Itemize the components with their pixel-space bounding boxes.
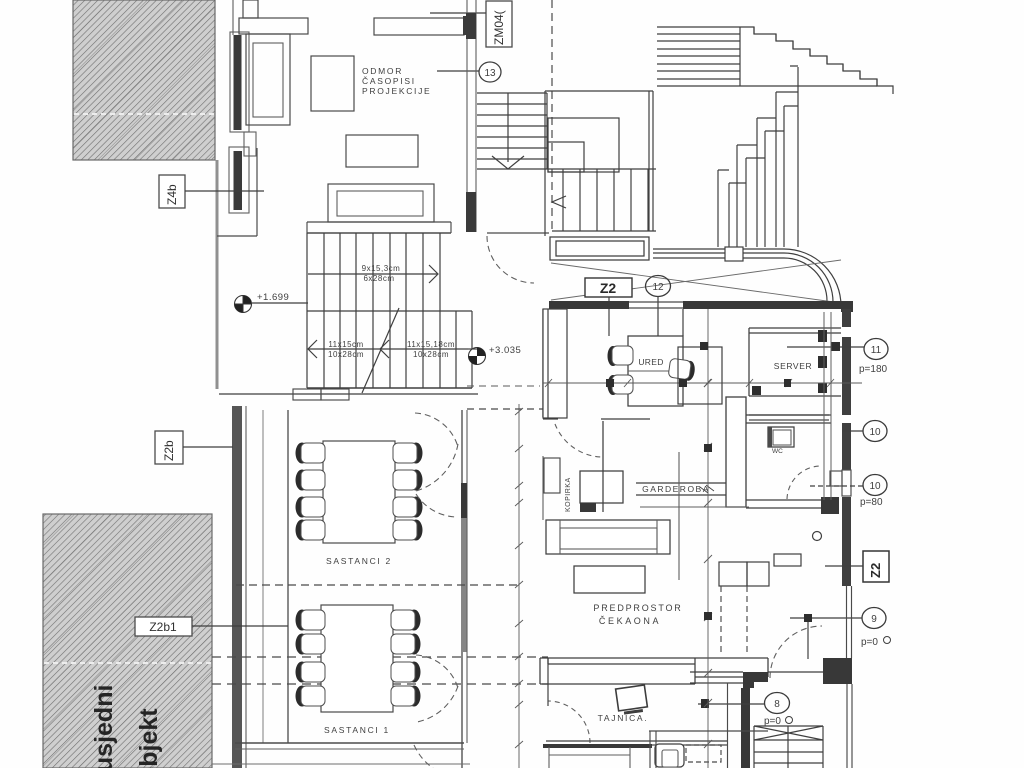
ured corridor west wall	[542, 309, 544, 417]
dashed wall continuation right of stairs	[467, 408, 543, 410]
room 9 door arc	[770, 626, 822, 678]
svg-text:p=80: p=80	[860, 497, 883, 508]
cabinets below stairs	[293, 389, 349, 400]
stairs bottom right	[754, 726, 823, 768]
room label ODMOR CASOPISI PROJEKCIJE	[362, 66, 431, 96]
meeting room west wall	[287, 410, 289, 743]
stair rail dark band	[741, 688, 750, 768]
svg-text:ČEKAONA: ČEKAONA	[599, 616, 661, 626]
meeting rooms bottom wall	[212, 743, 470, 764]
meeting rooms left outer wall band	[232, 406, 263, 768]
landing stair arrow	[492, 156, 524, 169]
circle 10 upper	[842, 421, 887, 442]
ramp square marker	[725, 247, 743, 261]
circle 10 lower	[810, 475, 887, 509]
ramp corridor	[550, 237, 649, 260]
svg-text:GARDEROBA: GARDEROBA	[642, 484, 710, 494]
svg-text:PREDPROSTOR: PREDPROSTOR	[593, 603, 682, 613]
landing lower stair	[547, 169, 656, 231]
stair dimension text 11x15,18cm 10x28cm	[407, 340, 455, 359]
label box ZM04	[430, 1, 512, 47]
svg-text:URED: URED	[638, 357, 663, 367]
wall below stairs	[219, 393, 478, 395]
circle 9	[790, 608, 891, 660]
partition east of ured	[682, 309, 684, 336]
dark pier right of wc	[821, 497, 839, 514]
svg-text:10x28cm: 10x28cm	[413, 350, 449, 359]
roof cascade staircase steps top	[718, 66, 798, 183]
svg-text:TAJNICA.: TAJNICA.	[598, 713, 649, 723]
label box Z2b	[155, 431, 233, 464]
wall cavity lines east side	[824, 312, 831, 500]
wc door arc	[787, 466, 821, 499]
stair break line	[362, 308, 399, 393]
stair top platform edge	[307, 222, 451, 233]
terrace step rects on landing	[548, 118, 619, 172]
label box Z4b	[159, 175, 264, 208]
neighbouring building hatched block bottom-left (susjedni objekt)	[43, 514, 212, 768]
tall pillar garderoba/wc	[726, 397, 746, 507]
neighbouring building hatched block top-left	[73, 0, 215, 160]
monitor tajnica	[616, 685, 648, 714]
dashed joint line in hatch	[44, 662, 211, 664]
low table odmor	[346, 135, 418, 167]
right wall window gaps	[841, 327, 852, 423]
circle 11	[787, 339, 888, 376]
level marker +1.699	[234, 292, 308, 313]
svg-text:6x28cm: 6x28cm	[363, 274, 394, 283]
roof cascade vertical lines	[718, 67, 798, 247]
circle 12	[646, 276, 671, 337]
room label PREDPROSTOR CEKAONA	[593, 603, 682, 626]
table cekaona	[574, 566, 645, 593]
top cabinet bar B	[374, 18, 464, 35]
chairs sastanci 1 right	[391, 610, 421, 631]
server racks	[752, 330, 827, 395]
svg-text:11x15,18cm: 11x15,18cm	[407, 340, 455, 349]
label box Z2 right	[825, 551, 889, 582]
svg-text:SASTANCI 1: SASTANCI 1	[324, 725, 390, 735]
double door arcs sastanci 1	[416, 655, 458, 722]
right outer wall hatched	[842, 309, 851, 586]
svg-text:9x15,3cm: 9x15,3cm	[362, 264, 401, 273]
leader to circle 13	[437, 70, 480, 72]
dim tick x708 upper	[700, 342, 708, 350]
window W1 in left wall	[230, 32, 249, 132]
chairs sastanci 1 left	[296, 610, 326, 631]
square table odmor	[311, 56, 354, 111]
ured desk return	[678, 347, 722, 404]
wall pier corridor	[543, 309, 567, 418]
stair walk line upper with arrow	[308, 265, 438, 283]
ramp cross bracing X	[551, 260, 841, 303]
tajnica east partition	[727, 683, 729, 768]
stair dimension text 9x15,3cm 6x28cm	[362, 264, 401, 283]
top cabinet stub	[243, 0, 258, 18]
wall stub above window W1	[232, 0, 234, 35]
vertical dimension line x708	[704, 309, 712, 768]
circle 13	[479, 62, 501, 82]
sofa left in odmor room	[246, 34, 290, 125]
label box Z2 top	[585, 278, 632, 336]
svg-text:Z2b: Z2b	[162, 440, 176, 461]
shelf below server	[749, 415, 829, 420]
stair walk line lower with arrows	[308, 340, 468, 358]
wall piers tajnica east	[743, 672, 768, 688]
vertical dimension line x519	[515, 404, 523, 768]
svg-text:Z2: Z2	[600, 280, 617, 296]
sofa bottom odmor	[328, 184, 434, 222]
svg-text:ZM04(: ZM04(	[492, 10, 506, 45]
svg-text:WC: WC	[772, 448, 783, 455]
corridor wall east of copier	[602, 421, 604, 512]
table sastanci 2	[323, 441, 395, 543]
bench predprostor	[546, 520, 670, 554]
circle 8	[698, 693, 793, 728]
main thick wall below ramp	[549, 301, 853, 312]
svg-text:+3.035: +3.035	[489, 345, 521, 356]
chairs sastanci 2 right	[393, 443, 423, 464]
window W2 in left wall	[217, 147, 257, 236]
kitchenette room9	[774, 532, 822, 567]
dark corner block right	[823, 658, 852, 684]
dashed lines hall	[721, 586, 747, 654]
svg-text:Z2b1: Z2b1	[149, 620, 177, 634]
cabinet below pier	[544, 458, 560, 493]
double door arcs sastanci 2	[415, 413, 458, 517]
landing outer box	[545, 91, 653, 236]
roof cascade staircase steps right	[740, 27, 893, 94]
left outer wall of upper room	[216, 160, 219, 389]
svg-text:12: 12	[652, 282, 664, 293]
dashed dimension continuation left of corridor	[467, 385, 540, 387]
wc room top wall	[746, 415, 831, 423]
svg-text:susjedni: susjedni	[90, 685, 118, 768]
svg-text:13: 13	[484, 68, 496, 79]
reception desk	[540, 658, 768, 684]
tajnica door arc	[548, 701, 590, 743]
horizontal dimension line y383	[543, 379, 862, 387]
door arc s1 to exterior	[414, 745, 433, 768]
svg-text:+1.699: +1.699	[257, 292, 289, 303]
svg-text:p=0: p=0	[764, 716, 781, 727]
side table	[244, 132, 256, 156]
svg-text:10x28cm: 10x28cm	[328, 350, 364, 359]
svg-text:Z4b: Z4b	[165, 184, 179, 205]
door arc below landing	[487, 236, 534, 283]
svg-text:10: 10	[869, 481, 881, 492]
desk chair pc	[655, 744, 684, 767]
top cabinet bar A	[239, 18, 308, 34]
svg-text:SERVER: SERVER	[774, 361, 812, 371]
svg-text:10: 10	[869, 427, 881, 438]
svg-text:9: 9	[871, 614, 877, 625]
right wall thin section below Z2 box	[847, 586, 852, 658]
desk under-structure verticals	[649, 731, 768, 768]
roof cascade horizontal lines	[657, 27, 877, 86]
svg-text:PROJEKCIJE: PROJEKCIJE	[362, 86, 431, 96]
main stair upper+lower flights	[307, 233, 472, 388]
dashed section line vertical	[551, 0, 553, 232]
svg-text:Z2: Z2	[868, 563, 883, 578]
ured desk	[628, 336, 683, 406]
level marker +3.035	[468, 345, 521, 365]
label box Z2b1	[135, 617, 288, 636]
kopirka copier	[565, 471, 623, 512]
table sastanci 1	[321, 605, 393, 712]
chairs sastanci 2 left	[296, 443, 326, 464]
svg-text:p=0: p=0	[861, 637, 878, 648]
svg-text:KOPIRKA: KOPIRKA	[565, 477, 572, 512]
landing stair treads going down	[477, 93, 547, 169]
meeting room east wall	[461, 410, 467, 768]
wc bottom wall	[746, 500, 821, 508]
svg-text:ODMOR: ODMOR	[362, 66, 403, 76]
svg-text:objekt: objekt	[135, 708, 163, 768]
closet rects room8 hall	[719, 562, 769, 586]
ured chair right	[668, 358, 696, 381]
corridor wall low	[542, 456, 544, 520]
wall pier top right	[463, 16, 472, 35]
svg-text:8: 8	[774, 699, 780, 710]
window in right wall	[830, 470, 851, 496]
svg-text:SASTANCI 2: SASTANCI 2	[326, 556, 392, 566]
svg-text:ČASOPISI: ČASOPISI	[362, 76, 416, 86]
wc washbasin	[768, 427, 794, 455]
ured chairs left	[608, 346, 634, 366]
dimension dark ticks y383	[606, 379, 791, 387]
dashed section lines horizontal	[212, 656, 548, 658]
server room	[749, 328, 841, 396]
svg-text:p=180: p=180	[859, 364, 888, 375]
svg-text:11: 11	[871, 345, 882, 356]
stair dimension text 11x15cm 10x28cm	[328, 340, 364, 359]
dashed joint line in hatch	[74, 113, 214, 115]
garderoba door arc	[555, 424, 601, 457]
ramp curved lines	[653, 249, 841, 306]
right wall of odmor room	[466, 0, 476, 232]
room 8 walls	[690, 672, 823, 683]
svg-text:11x15cm: 11x15cm	[328, 340, 363, 349]
tajnica desk bottom	[543, 741, 728, 768]
dashed cabinet below desk	[686, 745, 721, 762]
divider dashed between sastanci rooms	[236, 584, 519, 586]
garderoba wardrobe	[636, 483, 726, 495]
right wall bottom double line	[847, 684, 852, 768]
landing stair arrow left	[552, 196, 566, 208]
